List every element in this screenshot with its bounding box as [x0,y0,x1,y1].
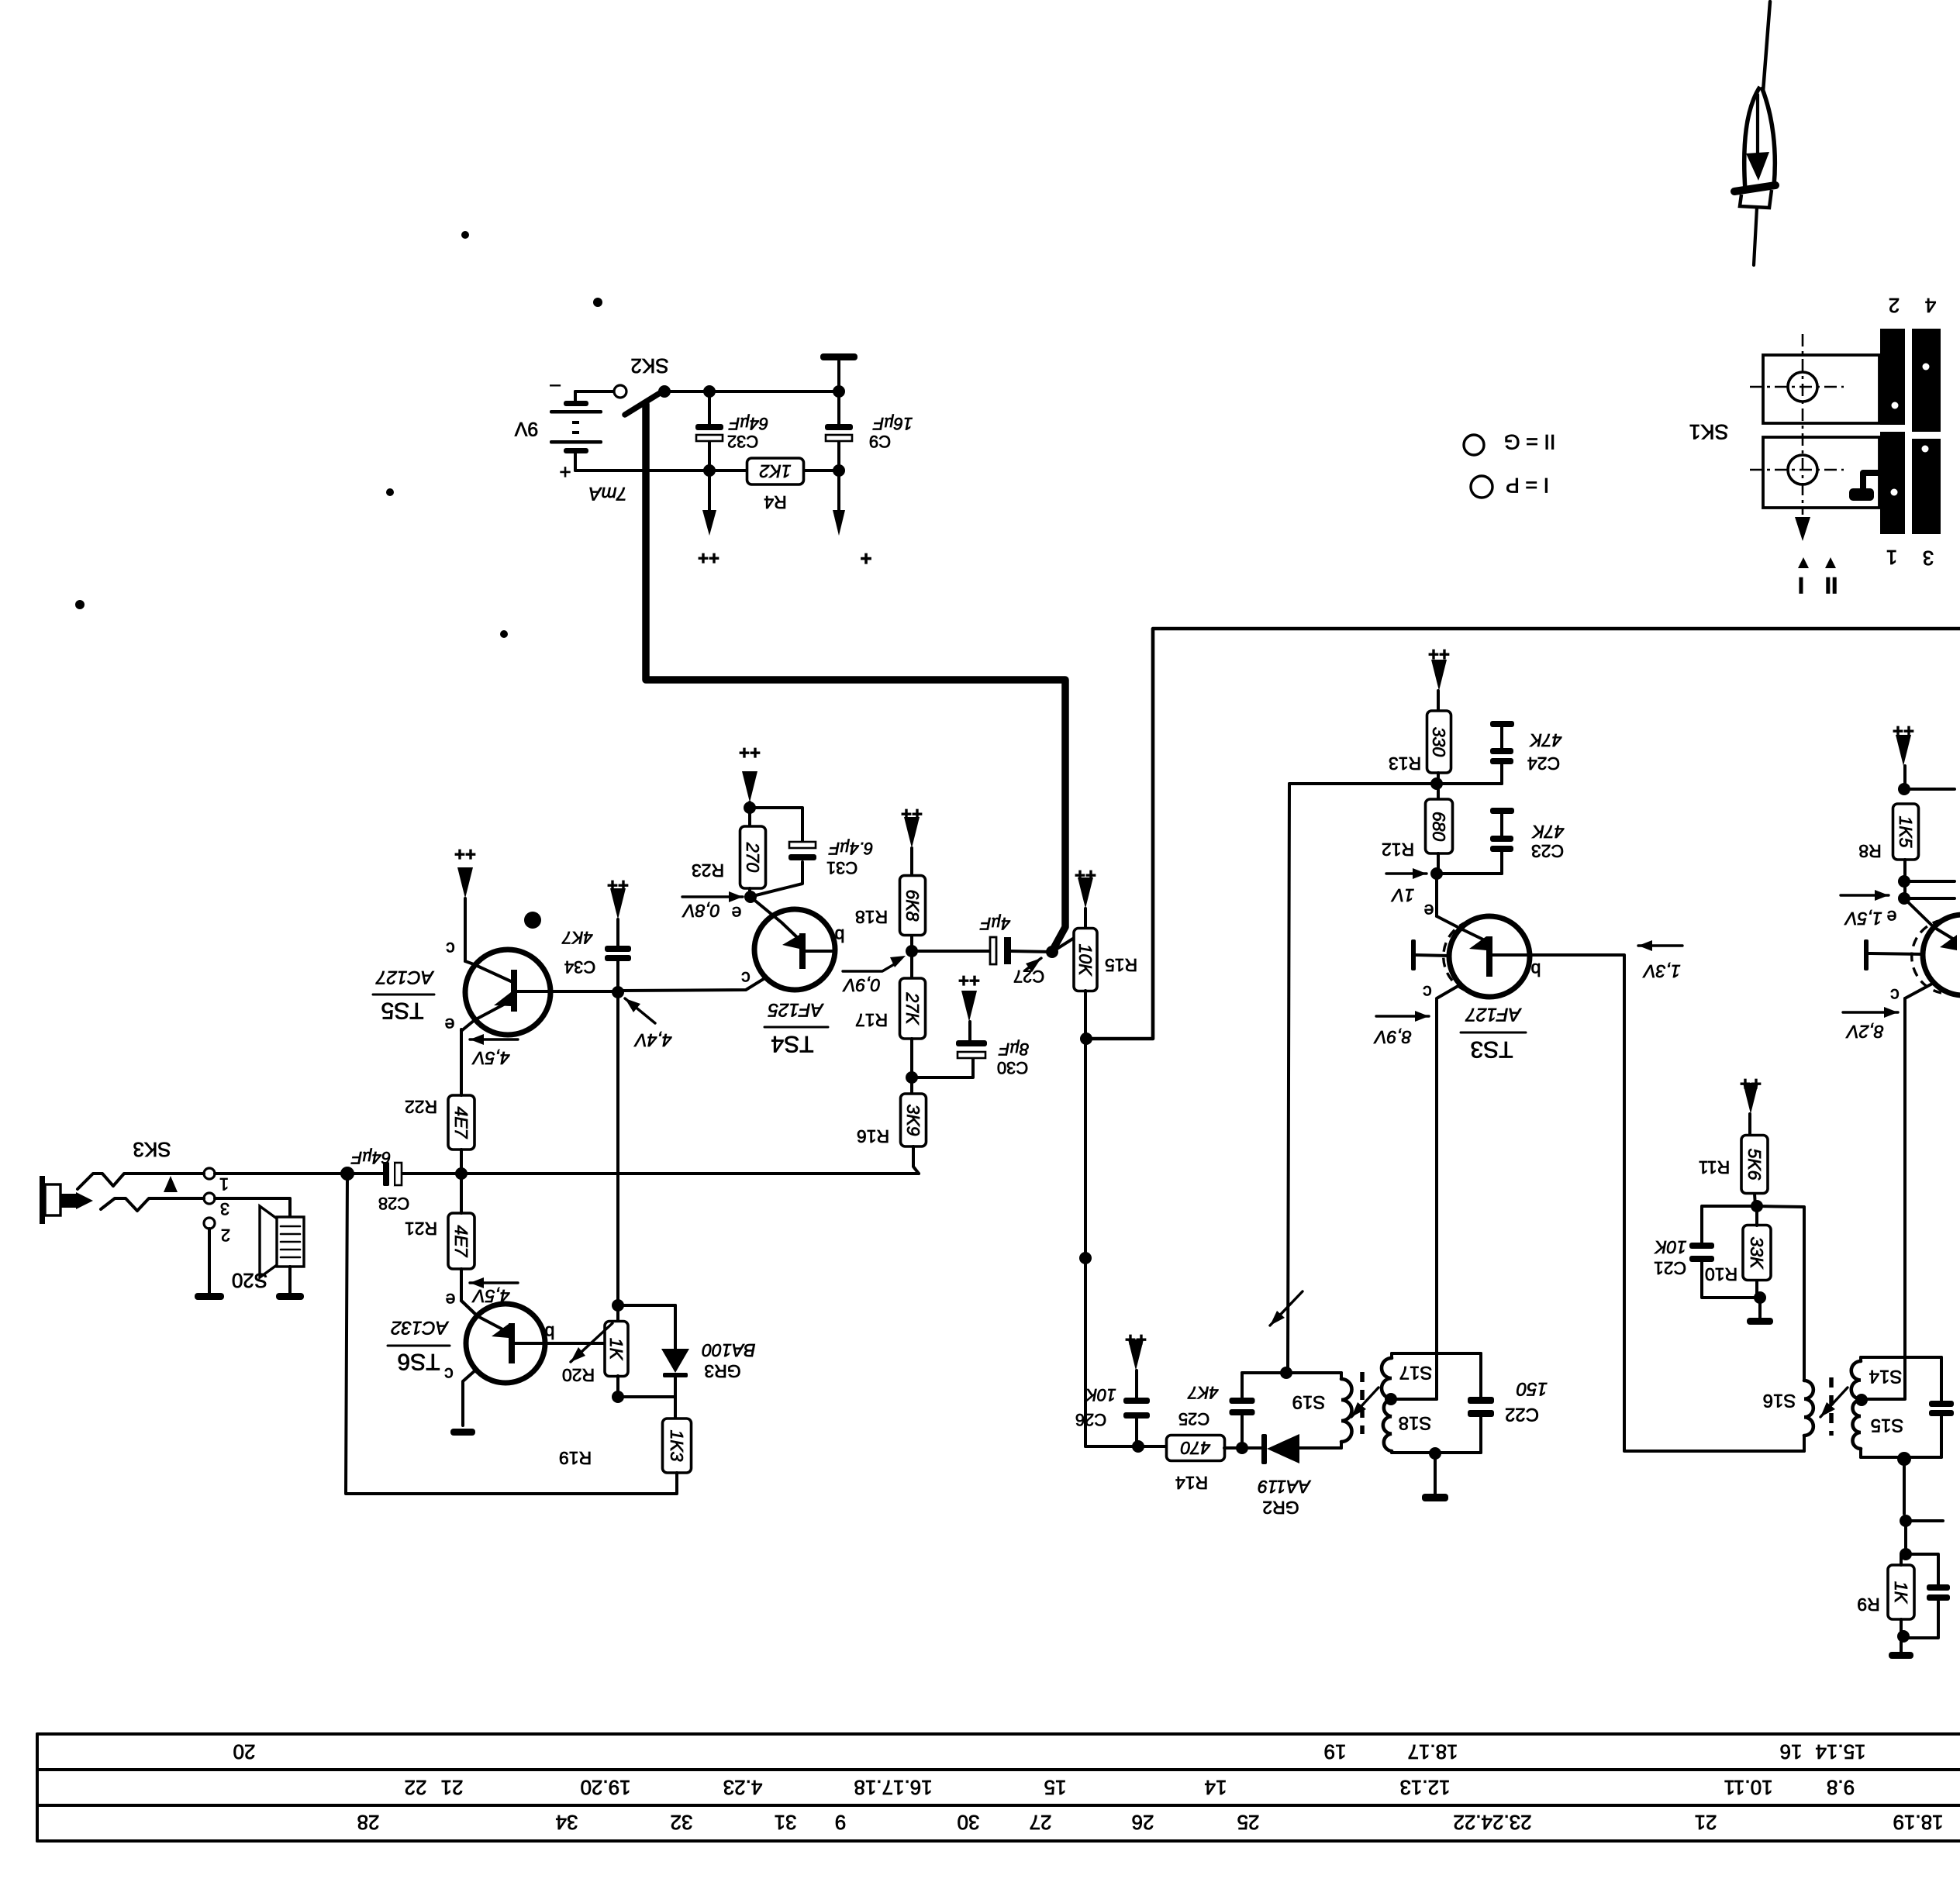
svg-text:++: ++ [698,547,719,568]
svg-text:64µF: 64µF [728,414,768,433]
svg-text:3: 3 [1923,546,1934,570]
svg-text:C24: C24 [1527,753,1560,774]
svg-text:2: 2 [221,1226,230,1245]
svg-text:4E7: 4E7 [451,1226,471,1258]
svg-text:4.23: 4.23 [723,1776,763,1799]
svg-text:R18: R18 [855,907,888,927]
svg-text:R8: R8 [1858,841,1881,861]
svg-text:II: II [1825,572,1838,598]
svg-text:AA119: AA119 [1258,1477,1312,1497]
svg-text:++: ++ [958,970,980,991]
svg-text:330: 330 [1429,727,1449,757]
svg-text:II = G: II = G [1504,430,1556,453]
svg-text:SK3: SK3 [133,1138,171,1161]
svg-text:22: 22 [405,1776,427,1799]
svg-text:–: – [550,376,561,397]
svg-text:C23: C23 [1531,841,1564,861]
svg-text:+: + [860,547,871,571]
svg-text:C32: C32 [727,432,758,451]
svg-text:3K9: 3K9 [903,1105,923,1136]
svg-text:SK2: SK2 [630,354,668,377]
svg-text:c: c [1890,985,1900,1005]
svg-text:33K: 33K [1747,1237,1767,1270]
svg-text:S20: S20 [232,1269,267,1292]
svg-text:S14: S14 [1869,1366,1903,1387]
svg-text:19: 19 [1324,1740,1347,1763]
svg-text:150: 150 [1516,1378,1548,1399]
svg-text:TS6: TS6 [397,1349,440,1374]
svg-text:4: 4 [1925,294,1936,317]
svg-text:S16: S16 [1763,1390,1796,1411]
svg-text:R15: R15 [1105,955,1137,975]
svg-text:S18: S18 [1399,1412,1432,1433]
svg-text:0,8V: 0,8V [682,901,720,921]
svg-text:12.13: 12.13 [1399,1776,1450,1799]
svg-text:C30: C30 [997,1058,1028,1077]
svg-text:R10: R10 [1705,1264,1737,1284]
svg-text:R12: R12 [1382,839,1414,860]
svg-text:e: e [1424,901,1434,921]
svg-text:AC132: AC132 [391,1317,449,1338]
svg-text:1: 1 [1886,546,1897,569]
svg-text:1K: 1K [606,1338,626,1361]
svg-text:21: 21 [441,1776,464,1799]
svg-text:GR3: GR3 [704,1361,740,1381]
svg-text:1,5V: 1,5V [1844,908,1882,929]
svg-text:c: c [1423,982,1432,1002]
svg-text:23.24.22: 23.24.22 [1453,1811,1531,1834]
svg-text:R19: R19 [559,1448,592,1468]
svg-text:8,9V: 8,9V [1373,1027,1412,1047]
svg-text:5K6: 5K6 [1744,1149,1765,1181]
svg-text:C26: C26 [1075,1410,1106,1429]
svg-text:26: 26 [1132,1811,1154,1834]
svg-text:16µF: 16µF [872,414,913,433]
svg-text:S19: S19 [1292,1391,1326,1412]
svg-text:b: b [545,1322,555,1343]
svg-text:30: 30 [958,1811,980,1834]
svg-text:9V: 9V [514,418,538,440]
svg-text:R16: R16 [857,1126,889,1146]
svg-text:SK1: SK1 [1689,420,1728,443]
svg-text:BA100: BA100 [702,1340,755,1360]
svg-text:R21: R21 [405,1219,437,1239]
svg-text:1V: 1V [1390,885,1414,905]
svg-text:I = P: I = P [1506,474,1549,497]
svg-text:TS4: TS4 [771,1031,813,1057]
svg-text:10K: 10K [1075,944,1096,977]
svg-text:R22: R22 [405,1097,437,1117]
svg-text:2: 2 [1889,294,1900,317]
svg-text:S17: S17 [1399,1362,1433,1383]
svg-text:C25: C25 [1178,1409,1209,1429]
svg-text:R9: R9 [1857,1594,1879,1615]
svg-text:4,4V: 4,4V [633,1030,672,1050]
svg-text:32: 32 [671,1811,693,1834]
svg-text:6.4µF: 6.4µF [828,839,873,858]
svg-text:R20: R20 [562,1365,595,1385]
svg-text:27K: 27K [902,992,923,1026]
svg-text:AF125: AF125 [768,999,824,1020]
svg-text:4µF: 4µF [979,914,1010,933]
svg-text:TS3: TS3 [1470,1036,1513,1062]
svg-text:+: + [559,460,571,484]
svg-text:4,5V: 4,5V [471,1048,510,1068]
svg-text:C27: C27 [1013,967,1044,986]
svg-text:b: b [1531,960,1541,980]
svg-text:e: e [445,1015,455,1035]
svg-text:19.20: 19.20 [580,1776,630,1799]
svg-text:R11: R11 [1699,1157,1731,1177]
svg-text:1K: 1K [1891,1581,1911,1605]
svg-text:C31: C31 [826,858,857,877]
svg-text:e: e [732,903,742,923]
svg-text:4,5V: 4,5V [471,1286,510,1306]
svg-text:4E7: 4E7 [451,1107,471,1139]
svg-text:16: 16 [1780,1740,1803,1763]
svg-text:R17: R17 [855,1010,888,1030]
svg-text:34: 34 [556,1811,578,1834]
svg-text:C22: C22 [1505,1404,1539,1425]
svg-text:16.17.18: 16.17.18 [854,1776,932,1799]
svg-text:1,3V: 1,3V [1642,961,1681,981]
svg-text:14: 14 [1205,1776,1227,1799]
svg-text:1K5: 1K5 [1896,816,1916,848]
svg-text:27: 27 [1030,1811,1052,1834]
svg-text:c: c [446,939,455,959]
svg-text:GR2: GR2 [1262,1498,1299,1518]
svg-text:8,2V: 8,2V [1845,1022,1884,1042]
svg-text:10.11: 10.11 [1724,1776,1772,1799]
svg-text:1: 1 [219,1174,229,1194]
svg-text:680: 680 [1429,812,1449,842]
svg-text:C9: C9 [869,432,891,451]
svg-text:3: 3 [220,1199,229,1219]
svg-text:25: 25 [1237,1811,1260,1834]
svg-text:9.8: 9.8 [1827,1776,1855,1799]
svg-text:I: I [1798,572,1804,598]
svg-text:10K: 10K [1085,1385,1116,1405]
svg-text:e: e [1887,907,1897,927]
svg-text:18.19: 18.19 [1893,1811,1943,1834]
svg-text:18.17: 18.17 [1407,1740,1458,1763]
svg-text:C21: C21 [1654,1258,1686,1278]
svg-text:9: 9 [835,1811,846,1834]
svg-text:4K7: 4K7 [562,928,593,947]
svg-text:21: 21 [1695,1811,1717,1834]
svg-text:15.14: 15.14 [1815,1740,1865,1763]
svg-text:47K: 47K [1529,730,1562,750]
svg-text:R13: R13 [1389,753,1421,774]
svg-text:47K: 47K [1531,822,1565,842]
svg-text:e: e [446,1290,456,1310]
svg-text:b: b [835,926,845,946]
svg-text:10K: 10K [1654,1237,1687,1257]
svg-text:R23: R23 [692,860,724,881]
svg-text:TS5: TS5 [381,998,423,1023]
svg-text:R4: R4 [764,492,787,512]
svg-text:C28: C28 [378,1194,409,1213]
svg-text:15: 15 [1044,1776,1067,1799]
svg-text:64µF: 64µF [350,1148,391,1167]
svg-text:c: c [444,1364,454,1384]
svg-text:7mA: 7mA [588,483,626,504]
svg-text:AC127: AC127 [375,967,435,988]
svg-text:R14: R14 [1175,1473,1208,1493]
svg-text:31: 31 [775,1811,797,1834]
svg-text:S15: S15 [1871,1415,1904,1436]
svg-text:1K2: 1K2 [759,461,791,481]
svg-text:20: 20 [233,1740,256,1763]
svg-text:28: 28 [357,1811,380,1834]
svg-text:4K7: 4K7 [1188,1383,1219,1402]
svg-text:++: ++ [739,742,761,763]
svg-text:1K3: 1K3 [667,1430,687,1462]
svg-text:470: 470 [1181,1438,1211,1458]
svg-text:270: 270 [743,842,763,873]
svg-text:++: ++ [454,843,476,864]
svg-text:AF127: AF127 [1465,1004,1522,1025]
svg-text:8µF: 8µF [998,1039,1029,1059]
svg-text:6K8: 6K8 [902,890,923,922]
svg-text:C34: C34 [564,957,595,977]
svg-text:0,9V: 0,9V [842,975,881,995]
svg-text:c: c [741,968,751,988]
